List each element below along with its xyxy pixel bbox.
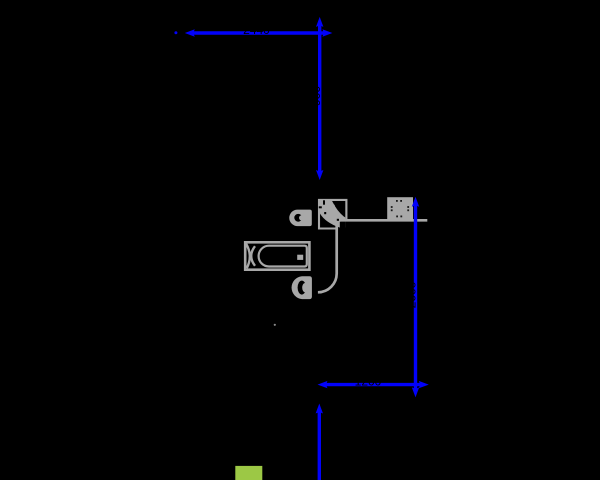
sink bowl crescent xyxy=(294,214,302,222)
shower interior band xyxy=(320,201,345,228)
node small gray dot xyxy=(274,324,276,326)
dimension line D2 vertical upper xyxy=(316,17,323,180)
shower square outline open corner xyxy=(319,200,346,229)
shower head marks xyxy=(330,204,335,209)
svg-text:2000: 2000 xyxy=(405,281,419,308)
dimension line D4 horizontal bottom xyxy=(318,381,429,388)
bathtub inner tub xyxy=(259,246,307,267)
bathtub faucet arc xyxy=(251,246,255,266)
wire wall with fillet and curved end xyxy=(318,220,346,292)
dimension line D5 vertical bottom xyxy=(316,404,323,480)
svg-text:1200: 1200 xyxy=(355,375,382,389)
green marker square xyxy=(235,466,262,480)
svg-text:2440: 2440 xyxy=(243,23,270,37)
sink basin filled xyxy=(289,210,312,227)
dimension line D3 vertical right xyxy=(412,197,419,398)
bathtub panel arc xyxy=(246,244,250,268)
bathtub outer rect xyxy=(245,242,309,269)
shower U1 square tray xyxy=(320,201,345,228)
toilet body filled xyxy=(292,276,312,299)
toilet bowl crescent xyxy=(298,281,306,295)
svg-text:900: 900 xyxy=(309,86,323,106)
washing machine filled square xyxy=(387,197,413,219)
wire horizontal wall line right of shower xyxy=(346,219,427,222)
washing machine dots xyxy=(391,200,409,217)
bathtub drain xyxy=(297,255,303,260)
dimension line D1 horizontal top xyxy=(174,29,332,36)
